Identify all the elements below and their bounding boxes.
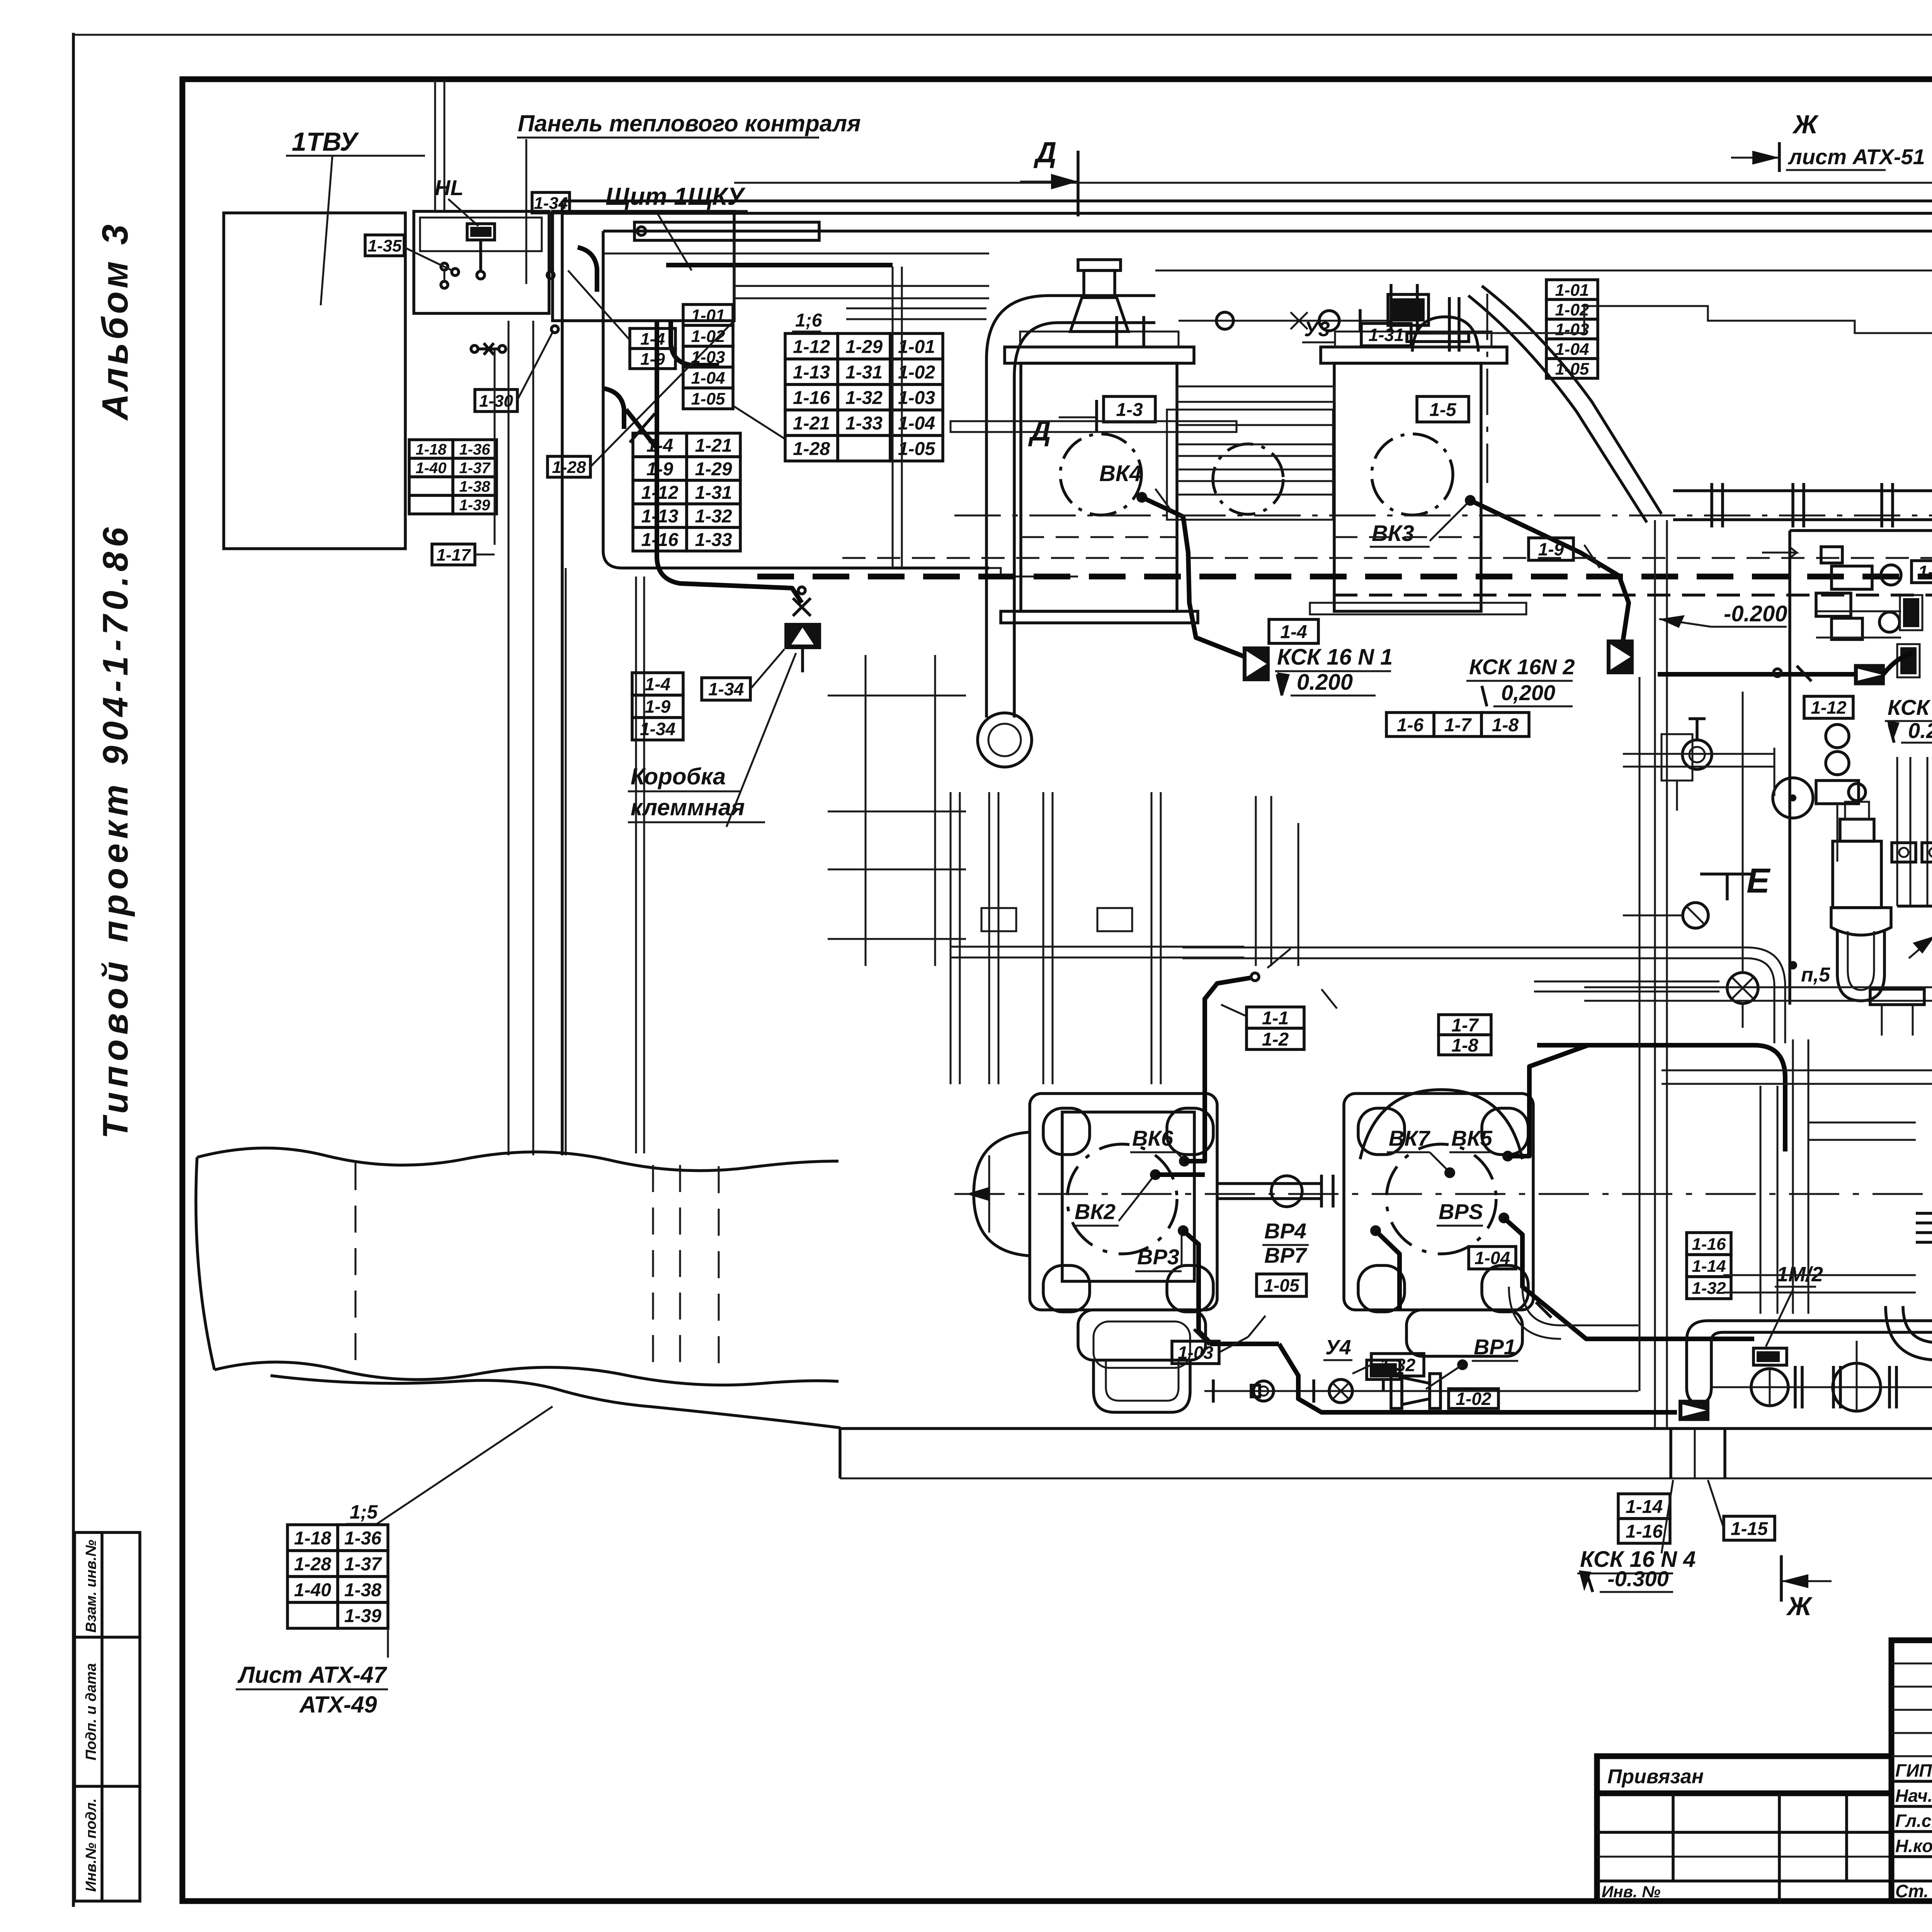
- svg-text:1-02: 1-02: [898, 362, 935, 383]
- svg-text:ВРS: ВРS: [1439, 1199, 1483, 1224]
- svg-text:1-05: 1-05: [898, 439, 935, 459]
- horizontal pipes right mid: [1537, 1043, 1754, 1048]
- svg-text:1-04: 1-04: [898, 413, 935, 434]
- svg-text:У4: У4: [1325, 1336, 1351, 1359]
- svg-text:-0.300: -0.300: [1607, 1566, 1669, 1591]
- vertical pair frame to panel: [434, 79, 436, 211]
- svg-text:ВР4: ВР4: [1264, 1219, 1306, 1243]
- box 1-9 right: [1529, 538, 1573, 560]
- label box 1-4: [1269, 619, 1318, 643]
- solenoid on pipe: [1392, 298, 1425, 321]
- solenoid U2 (black): [1900, 647, 1917, 674]
- svg-text:ВК2: ВК2: [1075, 1199, 1116, 1224]
- svg-text:1-16: 1-16: [793, 388, 830, 408]
- svg-text:1-40: 1-40: [294, 1580, 331, 1600]
- page edge left: [72, 33, 75, 1907]
- label box 1-05: [1257, 1274, 1306, 1296]
- svg-text:п,5: п,5: [1801, 964, 1830, 986]
- VK2 foundation U: [1094, 1360, 1190, 1412]
- svg-text:1-34: 1-34: [708, 679, 744, 699]
- svg-text:-0.200: -0.200: [1724, 601, 1787, 626]
- svg-text:КСК 2 N 3: КСК 2 N 3: [1888, 695, 1932, 719]
- 1TVU cabinet rectangle: [224, 213, 405, 549]
- VK2 motor: [974, 1132, 1030, 1256]
- table 1-01..1-05 right: [1546, 280, 1598, 378]
- vessel VK3 top plates: [1321, 347, 1507, 363]
- svg-text:1-28: 1-28: [294, 1554, 331, 1575]
- label box 1-5: [1417, 396, 1469, 422]
- torn strip lower-left: [197, 1148, 838, 1170]
- title block: staff table: [1891, 1640, 1932, 1901]
- bottom right pipework: [1712, 1386, 1932, 1388]
- svg-text:1-31: 1-31: [845, 362, 883, 383]
- svg-text:0.200: 0.200: [1297, 670, 1353, 695]
- table below 1-17: [409, 440, 497, 514]
- table 1-4 1-9 1-34: [632, 673, 683, 740]
- vessel VK4 body: [1021, 363, 1177, 611]
- svg-text:1-01: 1-01: [1555, 281, 1589, 299]
- svg-text:1-05: 1-05: [691, 389, 725, 408]
- svg-text:ВК7: ВК7: [1389, 1126, 1431, 1150]
- VR5 foundation: [1406, 1310, 1522, 1356]
- pipe bend bottom right: [1522, 1287, 1638, 1325]
- room top line: [603, 230, 1932, 233]
- label box 1-3: [1104, 396, 1155, 422]
- svg-text:1-8: 1-8: [1451, 1035, 1478, 1056]
- svg-text:1-04: 1-04: [691, 369, 725, 388]
- bullet pipe elbow: [1687, 1341, 1711, 1403]
- label box 1-31: [1361, 323, 1411, 346]
- label box 1-10: [1912, 561, 1932, 583]
- boxes 1-7 1-8: [1439, 1015, 1491, 1056]
- svg-text:Ж: Ж: [1786, 1592, 1813, 1621]
- bottom wall columns: [1669, 1429, 1672, 1478]
- label box 1-03: [1172, 1341, 1219, 1364]
- reducer flanges: [1391, 1374, 1402, 1408]
- svg-text:ВК4: ВК4: [1099, 461, 1142, 486]
- middle exchanger: [1167, 410, 1333, 520]
- svg-text:1-32: 1-32: [845, 388, 883, 408]
- svg-text:1-31: 1-31: [695, 483, 732, 503]
- label box 1-32: [1371, 1354, 1424, 1376]
- svg-text:1-05: 1-05: [1555, 359, 1589, 378]
- svg-text:1-39: 1-39: [344, 1606, 381, 1626]
- thin pipe with valves above VK3: [1179, 320, 1391, 322]
- leader to 1-1: [1221, 1005, 1247, 1016]
- nested pipe elbows right: [1916, 1182, 1932, 1213]
- svg-text:ВР1: ВР1: [1474, 1335, 1516, 1359]
- svg-text:Коробка: Коробка: [631, 764, 726, 789]
- VK2 corner ears: [1043, 1108, 1090, 1155]
- title block: pri-vyazan box: [1597, 1756, 1891, 1793]
- svg-text:1-12: 1-12: [793, 337, 830, 357]
- shchit cabinet box: [553, 211, 734, 321]
- 1-17 label box: [432, 544, 475, 565]
- svg-text:АТХ-49: АТХ-49: [299, 1692, 377, 1718]
- svg-text:1-31: 1-31: [1368, 325, 1404, 345]
- svg-text:1-37: 1-37: [344, 1554, 382, 1575]
- svg-text:1-38: 1-38: [344, 1580, 381, 1600]
- vessel shelves: [951, 421, 1236, 432]
- solenoid U1 (black): [1903, 598, 1919, 627]
- extra vertical pipes mid: [1639, 677, 1641, 1391]
- building grid columns: [508, 321, 510, 1155]
- long flanged pipe right: [1673, 489, 1932, 492]
- vertical guides from panel down: [494, 348, 496, 545]
- valve KCK16 N1: [1243, 646, 1270, 681]
- svg-text:1-01: 1-01: [691, 306, 725, 325]
- feed pipes to vessels: [1115, 316, 1118, 347]
- svg-text:1-1: 1-1: [1262, 1008, 1289, 1029]
- svg-text:ВК5: ВК5: [1451, 1126, 1493, 1150]
- gauge with stem: [1682, 740, 1712, 769]
- wall bar with circle: [634, 222, 819, 240]
- small gauge left bottom: [1683, 903, 1708, 928]
- pit room rectangle: [1788, 531, 1791, 1005]
- vertical pipes down right: [1808, 1039, 1810, 1314]
- svg-text:КСК 16 N 1: КСК 16 N 1: [1277, 645, 1393, 670]
- leader lines from tables: [733, 406, 784, 439]
- svg-text:1-3: 1-3: [1116, 400, 1143, 420]
- svg-text:Нач.отд.: Нач.отд.: [1895, 1786, 1932, 1806]
- svg-text:1-05: 1-05: [1264, 1276, 1299, 1296]
- exchanger stack lines: [1177, 424, 1334, 426]
- bottom wall lines: [840, 1427, 1932, 1430]
- svg-text:1-33: 1-33: [845, 413, 883, 434]
- svg-text:ГИП: ГИП: [1895, 1760, 1932, 1781]
- svg-text:1-8: 1-8: [1492, 715, 1519, 735]
- svg-text:HL: HL: [435, 175, 464, 200]
- hanging tubes: [1896, 757, 1898, 906]
- panel room bottom: [603, 551, 989, 568]
- svg-text:1-9: 1-9: [645, 697, 671, 717]
- label box 1-02: [1449, 1389, 1498, 1409]
- extra verticals under E mark: [1255, 796, 1257, 966]
- big pipe elbow right bottom: [1886, 1306, 1932, 1360]
- 1-35 label box: [365, 235, 404, 256]
- label box 1-04: [1469, 1247, 1516, 1269]
- svg-text:1-9: 1-9: [1538, 539, 1564, 560]
- svg-text:1-14: 1-14: [1626, 1497, 1663, 1517]
- svg-text:Щит 1ЩКУ: Щит 1ЩКУ: [605, 182, 746, 210]
- svg-text:1-16: 1-16: [1626, 1521, 1663, 1542]
- thermal control panel box: [414, 211, 549, 313]
- vessel VR5 outer: [1344, 1094, 1533, 1310]
- svg-text:1-15: 1-15: [1731, 1519, 1768, 1539]
- right horizontal pipe pairs: [1584, 986, 1932, 988]
- receiver assembly: [1833, 841, 1881, 908]
- svg-text:1-18: 1-18: [294, 1528, 331, 1549]
- svg-text:1-12: 1-12: [1811, 697, 1846, 718]
- svg-text:1-7: 1-7: [1451, 1015, 1479, 1036]
- VR5 ears: [1358, 1108, 1405, 1155]
- svg-text:1-39: 1-39: [459, 497, 490, 514]
- valve KCK16 N4 (black): [1679, 1400, 1709, 1421]
- svg-text:Привязан: Привязан: [1607, 1765, 1704, 1788]
- dome over VK3: [1412, 317, 1478, 352]
- cable horizontal to valve: [1658, 672, 1854, 677]
- TE section mark: [1700, 872, 1754, 876]
- svg-text:Лист АТХ-47: Лист АТХ-47: [237, 1662, 388, 1688]
- svg-text:Альбом 3: Альбом 3: [95, 221, 136, 421]
- svg-text:1-14: 1-14: [1692, 1257, 1726, 1276]
- U pipe end ring: [978, 713, 1032, 767]
- svg-text:Инв. №: Инв. №: [1602, 1883, 1660, 1901]
- svg-text:0,200: 0,200: [1501, 680, 1555, 705]
- cable shelf lines top-left: [734, 285, 989, 287]
- svg-text:1-9: 1-9: [646, 459, 673, 480]
- 1-28 label box (upper): [548, 456, 590, 477]
- svg-text:1-16: 1-16: [1692, 1235, 1726, 1253]
- flywheel circle: [1773, 778, 1813, 818]
- cable elbows from panels: [578, 247, 597, 292]
- svg-text:Н.контр.: Н.контр.: [1895, 1836, 1932, 1856]
- svg-text:Типовой проект 904-1-70.86: Типовой проект 904-1-70.86: [96, 523, 135, 1139]
- svg-text:1-32: 1-32: [1692, 1279, 1726, 1298]
- svg-text:ВР7: ВР7: [1264, 1243, 1308, 1267]
- svg-text:1-03: 1-03: [691, 348, 725, 367]
- svg-text:1-35: 1-35: [367, 236, 402, 255]
- compressor block inner lines: [828, 695, 966, 697]
- svg-text:У3: У3: [1304, 318, 1330, 341]
- section mark Zh bottom: [1780, 1555, 1783, 1602]
- axis horizontal: [954, 1193, 1932, 1195]
- page edge top: [73, 34, 1932, 36]
- top pipe run along wall: [1155, 270, 1932, 272]
- svg-text:Ж: Ж: [1792, 110, 1819, 139]
- svg-text:1-32: 1-32: [1380, 1355, 1415, 1375]
- valve on vertical pipe: [1727, 973, 1758, 1003]
- big table 3x5: [785, 333, 943, 461]
- vessel VK2 outer: [1030, 1094, 1217, 1310]
- vessel VK4 top assembly: [1005, 347, 1194, 363]
- mid-lower pipe grid: [950, 792, 952, 1084]
- 1-30 label box: [475, 389, 517, 412]
- horizontal pipe to flywheel: [1623, 753, 1774, 755]
- svg-text:Д: Д: [1028, 414, 1051, 447]
- svg-text:1-4: 1-4: [645, 674, 670, 694]
- svg-text:Инв.№ подл.: Инв.№ подл.: [83, 1798, 99, 1892]
- receiver U pipe: [1837, 931, 1884, 1001]
- svg-text:Взам. инв.№: Взам. инв.№: [83, 1540, 99, 1633]
- X tick above valve 1-34: [793, 598, 811, 616]
- pipe stubs at top-left of U: [846, 308, 986, 310]
- top-right valve group U1 U2: [1821, 547, 1842, 563]
- svg-text:1-2: 1-2: [1262, 1029, 1289, 1050]
- svg-text:ВК3: ВК3: [1372, 521, 1414, 546]
- svg-text:ВР3: ВР3: [1137, 1245, 1179, 1269]
- svg-text:клеммная: клеммная: [631, 794, 745, 820]
- svg-text:1;5: 1;5: [350, 1501, 378, 1523]
- heavy dashed cable run: [757, 574, 1932, 580]
- svg-text:лист АТХ-51: лист АТХ-51: [1787, 145, 1925, 169]
- centerline horizontal through vessels: [954, 515, 1932, 517]
- arrow on dashed run: [1762, 547, 1797, 558]
- VK2 circle: [1067, 1144, 1177, 1254]
- lower dashed line under VK3: [1334, 594, 1932, 597]
- big U pipe: [986, 296, 1155, 718]
- top inner line: [734, 182, 1932, 184]
- svg-text:1-40: 1-40: [415, 459, 446, 476]
- svg-text:1-04: 1-04: [1475, 1248, 1510, 1268]
- thick cable down from panel: [657, 321, 802, 603]
- svg-text:1-03: 1-03: [1178, 1343, 1213, 1363]
- svg-text:1-28: 1-28: [793, 439, 830, 459]
- svg-text:1-9: 1-9: [640, 350, 665, 369]
- svg-text:1-7: 1-7: [1444, 715, 1472, 735]
- table ATX-47: [287, 1525, 388, 1628]
- svg-text:1-13: 1-13: [793, 362, 830, 383]
- svg-text:1-02: 1-02: [691, 327, 725, 346]
- separator details: [1870, 989, 1924, 1005]
- table 1-4/1-9 with 1-01..1-05: [630, 328, 675, 369]
- svg-text:0.200: 0.200: [1908, 718, 1932, 743]
- svg-text:Подп. и дата: Подп. и дата: [83, 1663, 99, 1760]
- svg-text:1-32: 1-32: [695, 506, 732, 527]
- svg-text:1-4: 1-4: [646, 435, 673, 456]
- svg-text:1-04: 1-04: [1555, 340, 1589, 359]
- svg-text:Гл.спец.: Гл.спец.: [1895, 1811, 1932, 1831]
- label box 1-12: [1804, 696, 1853, 718]
- VK2 foundation: [1078, 1310, 1206, 1360]
- svg-text:1-29: 1-29: [695, 459, 732, 480]
- boxes 1-1 1-2: [1247, 1007, 1304, 1050]
- cable along bottom to KCK4: [1279, 1344, 1677, 1412]
- box 1-15: [1724, 1516, 1775, 1540]
- svg-text:ВК6: ВК6: [1132, 1126, 1173, 1150]
- svg-text:1-33: 1-33: [695, 530, 732, 550]
- svg-text:1-28: 1-28: [552, 458, 586, 477]
- svg-text:1-6: 1-6: [1397, 715, 1424, 735]
- svg-text:1-4: 1-4: [640, 330, 665, 349]
- title block: lower-left grid: [1597, 1793, 1891, 1901]
- valve (black) near 1-34: [784, 623, 821, 649]
- svg-text:1-13: 1-13: [641, 506, 678, 527]
- svg-text:1-16: 1-16: [641, 530, 678, 550]
- svg-text:1-10: 1-10: [1918, 562, 1932, 582]
- boxes 1-6 1-7 1-8: [1386, 713, 1529, 736]
- vessel VK3 circle: [1372, 434, 1453, 515]
- long horizontal pipes to right bend: [1182, 947, 1747, 949]
- svg-text:1-17: 1-17: [436, 546, 471, 565]
- svg-text:1-21: 1-21: [793, 413, 830, 434]
- diagonal pipes from dome: [1482, 286, 1662, 514]
- top wall outer: [562, 199, 1932, 202]
- label box 1-34 (plan): [702, 678, 750, 700]
- svg-text:1-29: 1-29: [845, 337, 883, 357]
- table 1-16 1-14 1-32: [1687, 1233, 1731, 1299]
- svg-text:КСК 16N 2: КСК 16N 2: [1469, 655, 1575, 679]
- thick cable from VK4: [1136, 492, 1147, 503]
- cable diagonal crossing: [590, 321, 734, 467]
- left wall: [561, 201, 564, 1155]
- extra cluster right: [1826, 724, 1849, 748]
- svg-text:1-02: 1-02: [1456, 1389, 1491, 1409]
- thick cable from VK3: [1470, 500, 1629, 641]
- table 1-14/1-16 bottom: [1618, 1494, 1670, 1543]
- right vertical pipes x=4283: [1654, 520, 1656, 1429]
- vessel VK3 body: [1334, 363, 1481, 611]
- svg-text:Е: Е: [1747, 862, 1771, 900]
- instrument with X on left wall: [471, 345, 478, 352]
- stepped platform outline: [1430, 306, 1932, 333]
- svg-text:1-21: 1-21: [695, 435, 732, 456]
- svg-text:1-12: 1-12: [641, 483, 678, 503]
- svg-text:Ст. инж.: Ст. инж.: [1895, 1881, 1932, 1901]
- left margin bottom boxes: [75, 1532, 140, 1901]
- svg-text:Панель теплового контраля: Панель теплового контраля: [518, 111, 861, 136]
- table 2col x5: [633, 433, 740, 551]
- vessel VK4 circle: [1060, 434, 1141, 515]
- svg-text:Д: Д: [1033, 136, 1056, 168]
- svg-text:1-38: 1-38: [459, 478, 490, 495]
- vertical pipe pair from panel area: [892, 267, 894, 568]
- svg-text:1-03: 1-03: [898, 388, 935, 408]
- valve KCK 2 N3 (black): [1854, 664, 1885, 685]
- svg-text:1-4: 1-4: [1280, 622, 1307, 642]
- 1-34 label box: [532, 192, 570, 213]
- svg-text:1-36: 1-36: [344, 1528, 381, 1549]
- svg-text:1ТВУ: 1ТВУ: [292, 127, 359, 156]
- valve symbols on bottom line: [1212, 1379, 1215, 1403]
- svg-text:1-5: 1-5: [1429, 400, 1457, 420]
- bottom pipe line: [1204, 1390, 1638, 1392]
- svg-text:1-01: 1-01: [898, 337, 935, 357]
- shaft between machines: [1217, 1182, 1321, 1185]
- svg-text:1-36: 1-36: [459, 441, 490, 458]
- svg-text:1;6: 1;6: [795, 310, 822, 331]
- bottom wall wavy to corner: [270, 1376, 840, 1428]
- svg-text:1-34: 1-34: [640, 719, 675, 739]
- svg-text:1-37: 1-37: [459, 459, 491, 476]
- svg-text:1-18: 1-18: [415, 441, 447, 458]
- valve KCK16 N2: [1607, 639, 1634, 674]
